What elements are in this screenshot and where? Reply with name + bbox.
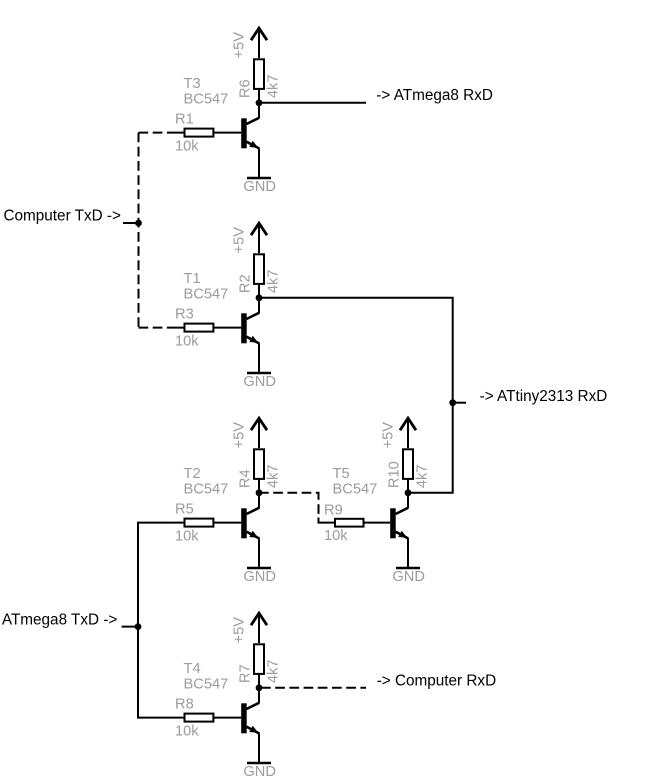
svg-text:T1: T1	[184, 271, 201, 287]
svg-text:BC547: BC547	[184, 676, 229, 692]
svg-text:R2: R2	[238, 274, 254, 293]
svg-text:T4: T4	[184, 661, 201, 677]
svg-text:T5: T5	[333, 466, 350, 482]
svg-text:R10: R10	[387, 461, 403, 488]
svg-text:10k: 10k	[324, 528, 348, 544]
svg-text:Computer TxD ->: Computer TxD ->	[4, 208, 122, 225]
svg-text:10k: 10k	[175, 138, 199, 154]
svg-text:R3: R3	[175, 307, 194, 323]
svg-text:-> ATmega8 RxD: -> ATmega8 RxD	[376, 87, 493, 104]
svg-text:10k: 10k	[175, 723, 199, 739]
svg-text:R4: R4	[238, 469, 254, 488]
svg-text:-> ATtiny2313 RxD: -> ATtiny2313 RxD	[480, 388, 608, 405]
svg-text:ATmega8 TxD ->: ATmega8 TxD ->	[2, 612, 118, 629]
svg-text:4k7: 4k7	[414, 464, 430, 488]
svg-text:4k7: 4k7	[265, 74, 281, 98]
svg-text:10k: 10k	[175, 528, 199, 544]
svg-text:T2: T2	[184, 466, 201, 482]
svg-text:4k7: 4k7	[265, 464, 281, 488]
svg-text:10k: 10k	[175, 333, 199, 349]
svg-text:BC547: BC547	[184, 286, 229, 302]
svg-text:R5: R5	[175, 502, 194, 518]
svg-text:BC547: BC547	[333, 481, 378, 497]
svg-text:R7: R7	[238, 664, 254, 683]
svg-text:R6: R6	[238, 79, 254, 98]
svg-text:BC547: BC547	[184, 91, 229, 107]
svg-text:4k7: 4k7	[265, 269, 281, 293]
svg-text:R9: R9	[324, 503, 343, 519]
svg-text:-> Computer RxD: -> Computer RxD	[377, 673, 496, 690]
svg-text:BC547: BC547	[184, 481, 229, 497]
svg-text:T3: T3	[184, 76, 201, 92]
svg-text:4k7: 4k7	[265, 659, 281, 683]
svg-text:R1: R1	[175, 112, 194, 128]
svg-text:R8: R8	[175, 697, 194, 713]
